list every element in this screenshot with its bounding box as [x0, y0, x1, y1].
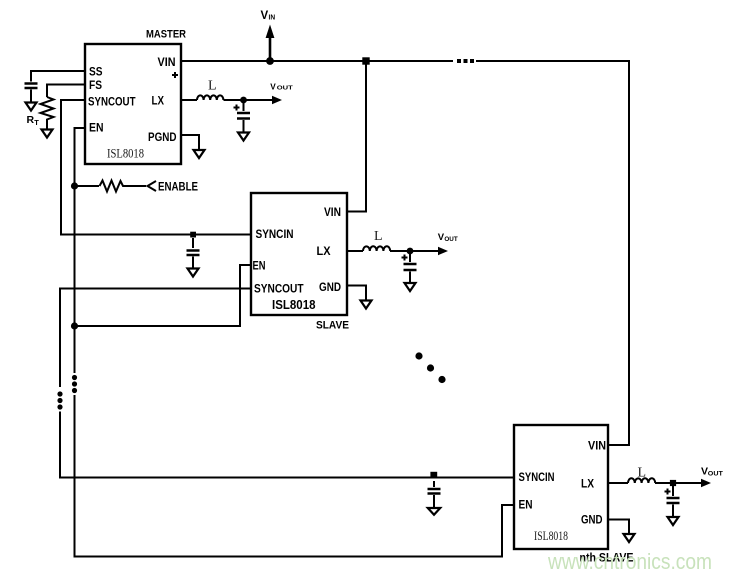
- wire: GND to ground (nth): [608, 520, 629, 534]
- svg-text:IN: IN: [269, 14, 276, 21]
- node: slave1 EN junction: [71, 322, 78, 329]
- wire: C2 to ground: [192, 257, 194, 271]
- wire: LX to inductor (slave1): [347, 250, 363, 252]
- ground (SS cap): [26, 103, 37, 111]
- ground (C2): [188, 269, 199, 277]
- svg-text:VIN: VIN: [158, 55, 176, 69]
- node: ENABLE junction: [71, 182, 78, 189]
- wire: C1 to ground: [30, 90, 32, 103]
- wire: VIN arrow stem: [269, 37, 272, 61]
- wire: junction to resistor: [75, 185, 100, 187]
- node: slave1 VIN riser junction: [362, 57, 369, 64]
- wire: inductor to VOUT arrow (slave1): [390, 250, 439, 252]
- VOUT arrow head (master): [272, 96, 282, 104]
- svg-text:LX: LX: [317, 244, 331, 258]
- wire: EN bus dotted break: [72, 375, 77, 380]
- node: output junction (slave1): [407, 248, 414, 255]
- ground (C4): [405, 283, 416, 291]
- svg-text:V: V: [261, 10, 269, 22]
- svg-text:OUT: OUT: [277, 85, 294, 91]
- wire: top rail right segment and drop to nth slave VIN: [476, 61, 629, 445]
- svg-text:EN: EN: [519, 498, 533, 512]
- svg-text:L: L: [638, 466, 647, 481]
- ellipsis dots between slaves: [415, 352, 422, 359]
- wire: master EN bus down: [75, 128, 86, 373]
- capacitor C5 (nth syncin filter): [428, 489, 441, 494]
- svg-text:SS: SS: [89, 65, 103, 79]
- wire: slave1 SYNCOUT bus down: [60, 289, 251, 388]
- svg-text:EN: EN: [253, 259, 266, 273]
- svg-text:SYNCIN: SYNCIN: [519, 470, 555, 484]
- svg-text:ISL8018: ISL8018: [272, 297, 316, 312]
- svg-text:OUT: OUT: [708, 471, 723, 478]
- VIN arrow head: [266, 25, 275, 39]
- inductor L1 (master): [197, 95, 223, 100]
- wire: C6 to ground: [672, 505, 674, 517]
- VOUT arrow head (nth): [701, 479, 711, 487]
- chip U1 master ISL8018: [85, 44, 181, 164]
- svg-text:SLAVE: SLAVE: [316, 319, 349, 331]
- wire: LX to inductor (nth): [608, 482, 628, 484]
- wire: C4 to ground: [409, 272, 411, 284]
- wire: FS to RT: [47, 85, 85, 98]
- ground (RT): [42, 130, 53, 138]
- wire: C5 to ground: [433, 495, 435, 510]
- ground (C5): [428, 508, 440, 515]
- VOUT arrow head (slave1): [438, 247, 448, 255]
- plus sign (C4): [402, 255, 408, 261]
- svg-text:PGND: PGND: [148, 130, 177, 144]
- svg-text:MASTER: MASTER: [146, 28, 186, 40]
- wire: junction to C6: [672, 486, 674, 496]
- svg-text:V: V: [270, 82, 276, 91]
- svg-text:VIN: VIN: [588, 439, 606, 453]
- inductor L3 (nth): [628, 478, 655, 483]
- wire: slave1 EN tap: [75, 265, 252, 326]
- ENABLE input chevron: [148, 181, 157, 191]
- resistor R (enable): [100, 181, 147, 192]
- wire: EN bus lower segment to nth slave EN: [75, 395, 515, 557]
- wire: inductor to VOUT arrow (nth): [655, 482, 702, 484]
- wire: top rail dots (break): [457, 59, 461, 63]
- svg-text:R: R: [27, 114, 35, 126]
- svg-text:L: L: [374, 229, 383, 244]
- chip U3 nth slave ISL8018: [514, 425, 608, 549]
- wire: junction to C3: [243, 100, 245, 111]
- node: output junction (nth, square): [670, 480, 676, 486]
- capacitor C6 (nth out): [667, 498, 680, 503]
- wire: sync bus dotted break: [57, 391, 62, 396]
- capacitor C2 (syncin filter): [187, 251, 200, 256]
- svg-text:T: T: [34, 118, 39, 127]
- plus sign (C3): [234, 105, 240, 111]
- chip U2 slave ISL8018: [251, 193, 347, 315]
- wire: LX to inductor (master): [181, 99, 197, 101]
- svg-text:VIN: VIN: [324, 205, 341, 219]
- svg-text:OUT: OUT: [444, 237, 458, 243]
- svg-text:FS: FS: [89, 78, 102, 92]
- svg-text:GND: GND: [319, 280, 341, 294]
- wire: C3 to ground: [243, 120, 245, 132]
- svg-text:ISL8018: ISL8018: [107, 146, 144, 161]
- svg-text:GND: GND: [581, 513, 603, 527]
- plus sign (C6): [665, 489, 671, 495]
- capacitor C3 (master out): [237, 113, 250, 119]
- wire: inductor to VOUT arrow: [224, 99, 274, 101]
- ground (nth GND): [624, 534, 635, 542]
- ground (C3): [238, 133, 249, 141]
- wire: top VIN rail from master VIN to right corner: [181, 60, 453, 62]
- wire: slave1 VIN riser: [347, 61, 366, 212]
- wire: GND to ground (slave1): [347, 286, 366, 301]
- resistor RT: [41, 97, 54, 129]
- node: VIN arrow junction: [266, 57, 274, 65]
- svg-text:LX: LX: [152, 94, 165, 108]
- svg-text:SYNCIN: SYNCIN: [256, 227, 294, 241]
- svg-text:LX: LX: [581, 477, 594, 491]
- capacitor C1 (SS): [25, 84, 38, 89]
- wire: junction to C4: [409, 251, 411, 262]
- wire: sync bus lower segment to nth slave SYNCIN: [60, 412, 514, 478]
- wire: SS to C1: [31, 71, 85, 82]
- wire: PGND to ground: [181, 135, 199, 150]
- node: sync cap junction (square): [190, 232, 196, 238]
- svg-text:ISL8018: ISL8018: [534, 528, 568, 543]
- wire: junction to C5: [433, 481, 435, 487]
- ground (slave1 GND): [361, 301, 372, 309]
- capacitor C4 (slave1 out): [404, 264, 417, 270]
- wire: junction to C2: [192, 238, 194, 248]
- svg-text:SYNCOUT: SYNCOUT: [254, 282, 304, 296]
- node: output junction (master): [240, 97, 247, 104]
- svg-text:L: L: [208, 79, 217, 94]
- svg-text:SYNCOUT: SYNCOUT: [88, 95, 136, 109]
- inductor L2 (slave1): [363, 246, 390, 251]
- svg-text:ENABLE: ENABLE: [158, 180, 198, 194]
- wire: master SYNCOUT bus down and right to slave1 SYNCIN: [61, 100, 251, 235]
- svg-text:www.cntronics.com: www.cntronics.com: [547, 549, 712, 574]
- node: nth syncin cap junction (square): [430, 472, 437, 479]
- ground (C6): [668, 517, 679, 525]
- svg-text:EN: EN: [89, 121, 104, 135]
- ground (PGND): [194, 150, 205, 158]
- stray plus mark near VIN pin: [172, 72, 178, 78]
